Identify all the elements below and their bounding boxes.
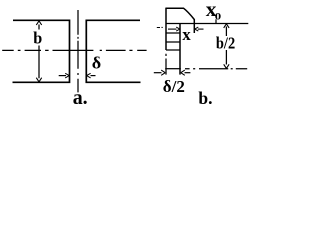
- svg-text:δ/2: δ/2: [163, 77, 185, 96]
- svg-text:δ: δ: [92, 54, 101, 72]
- svg-text:b/2: b/2: [216, 34, 235, 52]
- svg-text:x: x: [182, 25, 191, 44]
- svg-text:a.: a.: [73, 87, 88, 110]
- svg-text:0: 0: [215, 12, 222, 22]
- svg-text:b.: b.: [198, 88, 212, 108]
- svg-text:b: b: [33, 28, 42, 47]
